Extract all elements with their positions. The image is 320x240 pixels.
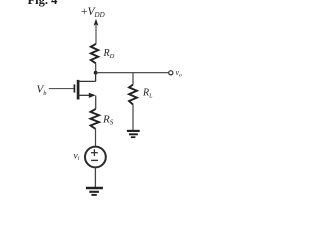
wire node to RL top xyxy=(132,73,134,85)
ground (below RL) xyxy=(127,131,140,137)
wire gate lead xyxy=(49,88,74,90)
label Vb (gate bias) xyxy=(37,84,48,97)
node drain junction xyxy=(94,71,98,75)
wire vi to ground xyxy=(94,167,96,187)
svg-text:Fig. 4: Fig. 4 xyxy=(28,0,59,7)
label RS xyxy=(102,114,114,127)
label RL xyxy=(142,88,153,100)
source vi (independent voltage source) xyxy=(85,147,106,168)
label vo xyxy=(176,68,183,78)
label RD xyxy=(103,48,115,60)
wire RS to source vi xyxy=(95,129,97,147)
terminal vo (open circle) xyxy=(169,71,173,75)
wire RD bottom to drain node xyxy=(95,63,97,72)
label vi xyxy=(74,151,80,162)
power +VDD label xyxy=(81,6,105,19)
power VDD arrow xyxy=(94,19,99,44)
wire source to RS xyxy=(95,96,97,109)
wire drain node to output terminal xyxy=(96,72,169,74)
wire RL bottom to ground xyxy=(132,105,134,130)
label Fig. 4 (cropped caption at top) xyxy=(28,0,59,7)
resistor RS xyxy=(91,109,100,129)
transistor Q1 (NMOS) xyxy=(74,73,95,100)
ground (below vi) xyxy=(86,188,103,195)
resistor RL xyxy=(129,85,137,105)
resistor RD xyxy=(91,44,98,64)
